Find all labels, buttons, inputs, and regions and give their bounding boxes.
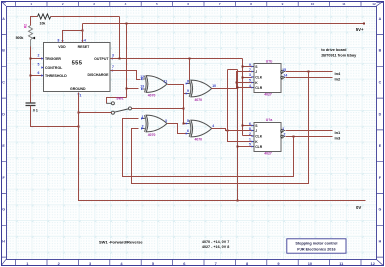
left ruler letters bbox=[2, 17, 5, 244]
svg-text:9: 9 bbox=[282, 2, 284, 6]
junction threshold branch bbox=[30, 75, 32, 77]
svg-text:4027: 4027 bbox=[264, 152, 272, 156]
svg-text:4027 - +16, 0V 8: 4027 - +16, 0V 8 bbox=[202, 245, 229, 249]
svg-text:C: C bbox=[2, 81, 5, 85]
svg-text:9: 9 bbox=[249, 63, 251, 67]
svg-text:G: G bbox=[2, 208, 5, 212]
svg-text:555: 555 bbox=[72, 61, 83, 67]
wire: branch to THRESHOLD bbox=[31, 75, 42, 77]
svg-text:2: 2 bbox=[142, 124, 144, 128]
flip-flop U3b 4027 bbox=[252, 64, 286, 93]
svg-text:A: A bbox=[379, 17, 382, 21]
svg-text:4070: 4070 bbox=[148, 93, 156, 97]
wire: gate1 out to gate2 pin9, switch common, gate4 pin5 bbox=[168, 85, 187, 124]
svg-text:8: 8 bbox=[187, 80, 189, 84]
wire: ground to switch lower throw bbox=[79, 112, 112, 114]
svg-text:6: 6 bbox=[187, 2, 189, 6]
svg-text:DISCHARGE: DISCHARGE bbox=[87, 73, 109, 77]
junction gate2out K branch bbox=[236, 82, 238, 84]
right ruler ticks bbox=[376, 3, 383, 257]
svg-text:1: 1 bbox=[282, 127, 284, 131]
svg-text:A: A bbox=[2, 17, 5, 21]
wire: 5V+ rail bbox=[83, 23, 365, 25]
wire: cap bottom to ground line bbox=[31, 106, 79, 127]
wire: FF2 J stub bbox=[243, 125, 253, 127]
svg-text:6: 6 bbox=[38, 71, 40, 75]
xor gate U2b 4070 bbox=[186, 80, 212, 97]
wire: FF1 J stub bbox=[243, 66, 252, 68]
svg-text:D: D bbox=[2, 112, 5, 116]
junction gnd-switch bbox=[78, 112, 80, 114]
svg-text:6: 6 bbox=[249, 122, 251, 126]
left ruler ticks bbox=[1, 3, 6, 257]
top ruler ticks bbox=[16, 1, 361, 6]
potentiometer R2 500k bbox=[29, 26, 33, 47]
svg-text:3: 3 bbox=[93, 2, 95, 6]
svg-text:ln3: ln3 bbox=[335, 135, 342, 140]
svg-text:1: 1 bbox=[249, 138, 251, 142]
junction FF2 clr bbox=[237, 146, 239, 148]
555 pin numbers bbox=[38, 39, 115, 98]
svg-text:11: 11 bbox=[164, 79, 168, 83]
svg-text:U?a: U?a bbox=[266, 118, 273, 122]
capacitor C1 0.1 bbox=[26, 103, 36, 106]
svg-text:H: H bbox=[2, 240, 5, 244]
svg-text:6: 6 bbox=[187, 129, 189, 133]
svg-text:2: 2 bbox=[38, 54, 40, 58]
wire: 555 OUTPUT long wire bbox=[111, 58, 243, 60]
svg-text:5: 5 bbox=[38, 63, 40, 67]
wire: gate3 out to gate4 pin6 bbox=[168, 124, 187, 134]
bottom ruler numbers bbox=[26, 261, 375, 266]
junction rail to gate riser bbox=[126, 23, 128, 25]
wire: gate2 out to FF1 S and K bbox=[212, 72, 252, 89]
svg-text:7: 7 bbox=[219, 2, 221, 6]
svg-text:SW1: SW1 bbox=[116, 96, 123, 100]
wire: RESET riser to 5V rail bbox=[82, 24, 84, 43]
svg-text:10: 10 bbox=[212, 84, 216, 88]
svg-text:to drive board: to drive board bbox=[321, 48, 347, 52]
svg-text:4027: 4027 bbox=[264, 93, 272, 97]
wire: VDD riser bbox=[63, 31, 83, 43]
svg-text:8: 8 bbox=[58, 39, 60, 43]
svg-text:2: 2 bbox=[249, 132, 251, 136]
svg-text:OUTPUT: OUTPUT bbox=[94, 57, 109, 61]
svg-text:1: 1 bbox=[80, 94, 82, 98]
svg-text:5: 5 bbox=[249, 79, 251, 83]
junction clr to 0V bbox=[237, 200, 239, 202]
svg-text:3: 3 bbox=[249, 73, 251, 77]
svg-text:7: 7 bbox=[112, 65, 114, 69]
svg-text:7: 7 bbox=[249, 68, 251, 72]
svg-text:2BT0911 from Ebay: 2BT0911 from Ebay bbox=[321, 54, 357, 58]
svg-text:ln4: ln4 bbox=[335, 71, 342, 76]
xor gate U2a 4070 bbox=[141, 76, 167, 93]
wire: riser output to gate2 pin8 bbox=[187, 59, 190, 84]
switch SW1 bbox=[106, 96, 131, 114]
wire: FF1 Q to ln4 bbox=[286, 71, 333, 73]
555 pin wedges bbox=[41, 40, 112, 94]
svg-text:8: 8 bbox=[249, 127, 251, 131]
junction FF1 clk bbox=[242, 77, 244, 79]
xor gate U2c 4070 bbox=[141, 115, 167, 132]
svg-text:R2: R2 bbox=[23, 24, 27, 28]
wire: CLR chain to 0V bbox=[238, 70, 253, 201]
junction output/gate riser bbox=[189, 58, 191, 60]
svg-text:C: C bbox=[379, 81, 382, 85]
svg-text:5: 5 bbox=[249, 143, 251, 147]
flip-flop U3a 4027 bbox=[252, 123, 286, 152]
svg-text:4: 4 bbox=[84, 39, 86, 43]
svg-text:13: 13 bbox=[140, 85, 144, 89]
wire: switch common to gate riser bbox=[132, 108, 184, 110]
svg-text:G: G bbox=[379, 208, 382, 212]
junction vdd-reset bbox=[82, 30, 84, 32]
svg-text:12: 12 bbox=[140, 75, 144, 79]
wire: branch to TRIGGER bbox=[31, 58, 42, 60]
svg-text:4070: 4070 bbox=[195, 137, 203, 141]
svg-text:1: 1 bbox=[142, 115, 144, 119]
wire: DISCHARGE to gate1 pin12 bbox=[111, 71, 141, 80]
svg-text:0V: 0V bbox=[356, 205, 361, 210]
IC U1 555 timer bbox=[44, 43, 111, 92]
junction FF1 J bbox=[242, 66, 244, 68]
svg-text:ln1: ln1 bbox=[335, 130, 342, 135]
svg-text:PJR Electronics 2016: PJR Electronics 2016 bbox=[297, 248, 335, 252]
svg-text:TRIGGER: TRIGGER bbox=[45, 57, 61, 61]
svg-text:3: 3 bbox=[112, 53, 114, 57]
bottom ruler ticks bbox=[16, 259, 361, 265]
junction cap-gnd bbox=[78, 126, 80, 128]
wire: resistor right lead to riser bbox=[51, 16, 120, 18]
junction FF2 J bbox=[242, 125, 244, 127]
svg-text:CONTROL: CONTROL bbox=[45, 66, 63, 70]
wire: riser resistor to 555 output bbox=[119, 17, 121, 59]
wire: FF1 Q feedback to gate3 pin2 bbox=[132, 72, 309, 184]
resistor R1 10k bbox=[38, 14, 51, 19]
svg-text:4: 4 bbox=[125, 2, 127, 6]
wire: CLR chain top corner bbox=[228, 69, 238, 71]
svg-text:500k: 500k bbox=[16, 36, 24, 40]
svg-text:5: 5 bbox=[156, 2, 158, 6]
svg-text:4070: 4070 bbox=[148, 133, 156, 137]
svg-text:7: 7 bbox=[215, 261, 217, 266]
svg-text:10k: 10k bbox=[40, 21, 46, 25]
svg-text:Stepping motor control: Stepping motor control bbox=[295, 242, 337, 246]
svg-text:4070: 4070 bbox=[195, 98, 203, 102]
wire: pot bottom down to trigger/threshold/cap bbox=[30, 47, 32, 104]
svg-text:5: 5 bbox=[187, 119, 189, 123]
wire: 555 out riser to FF clocks bbox=[243, 59, 253, 136]
svg-text:4: 4 bbox=[212, 124, 214, 128]
svg-text:RESET: RESET bbox=[78, 45, 91, 49]
right ruler letters bbox=[379, 17, 382, 244]
junction 5V rail end bbox=[363, 23, 365, 25]
wire: FF2 Qbar feedback to gate3 pin1 bbox=[123, 119, 294, 177]
svg-text:0 1: 0 1 bbox=[33, 109, 38, 113]
svg-text:4070 - +14, 0V 7: 4070 - +14, 0V 7 bbox=[202, 240, 229, 244]
junction trigger branch bbox=[30, 58, 32, 60]
junction FF1 clr bbox=[237, 87, 239, 89]
svg-text:THRESHOLD: THRESHOLD bbox=[45, 74, 67, 78]
svg-text:3: 3 bbox=[165, 119, 167, 123]
svg-text:H: H bbox=[379, 240, 382, 244]
svg-text:8: 8 bbox=[250, 2, 252, 6]
wire: 5V riser to gate1 pin13 and switch throw bbox=[107, 24, 139, 104]
svg-text:B: B bbox=[379, 49, 382, 53]
svg-text:D: D bbox=[379, 112, 382, 116]
wire: K dropper to FF2 K bbox=[228, 70, 253, 142]
svg-text:10: 10 bbox=[308, 261, 312, 266]
junction K dropper crossing bbox=[227, 130, 229, 132]
wire: FF2 Qbar to ln3 bbox=[286, 136, 333, 138]
junction FF1 Q riser bbox=[308, 71, 310, 73]
svg-text:B: B bbox=[2, 49, 5, 53]
junction gate1 pin13 bbox=[126, 88, 128, 90]
top ruler numbers bbox=[30, 2, 376, 6]
svg-text:2: 2 bbox=[62, 2, 64, 6]
wire: 0V ground rail bbox=[79, 93, 366, 201]
title block bbox=[287, 239, 346, 253]
svg-text:ln2: ln2 bbox=[335, 76, 342, 81]
wire: gate4 out to FF2 S bbox=[212, 129, 253, 131]
svg-text:4: 4 bbox=[249, 84, 251, 88]
svg-text:11: 11 bbox=[342, 2, 346, 6]
svg-text:VDD: VDD bbox=[58, 45, 66, 49]
svg-text:2: 2 bbox=[284, 133, 286, 137]
junction gate3 out crossing bbox=[183, 123, 185, 125]
svg-text:SW1 -Forward/Reverse: SW1 -Forward/Reverse bbox=[99, 239, 143, 244]
junction FF2 Qbar riser bbox=[293, 136, 295, 138]
svg-text:1: 1 bbox=[30, 2, 32, 6]
svg-text:9: 9 bbox=[187, 89, 189, 93]
wire: FF1 Qbar to ln2 bbox=[286, 77, 333, 79]
wire: FF2 Q to ln1 bbox=[286, 130, 333, 132]
junction output/resistor riser bbox=[119, 58, 121, 60]
wire: pot top to resistor left bbox=[31, 17, 38, 26]
svg-text:10: 10 bbox=[311, 2, 315, 6]
svg-text:GROUND: GROUND bbox=[70, 87, 86, 91]
xor gate U2d 4070 bbox=[186, 120, 212, 137]
svg-text:12: 12 bbox=[372, 2, 376, 6]
svg-text:U?b: U?b bbox=[266, 59, 273, 63]
svg-text:5V+: 5V+ bbox=[356, 27, 364, 32]
junction switch common on riser bbox=[183, 108, 185, 110]
